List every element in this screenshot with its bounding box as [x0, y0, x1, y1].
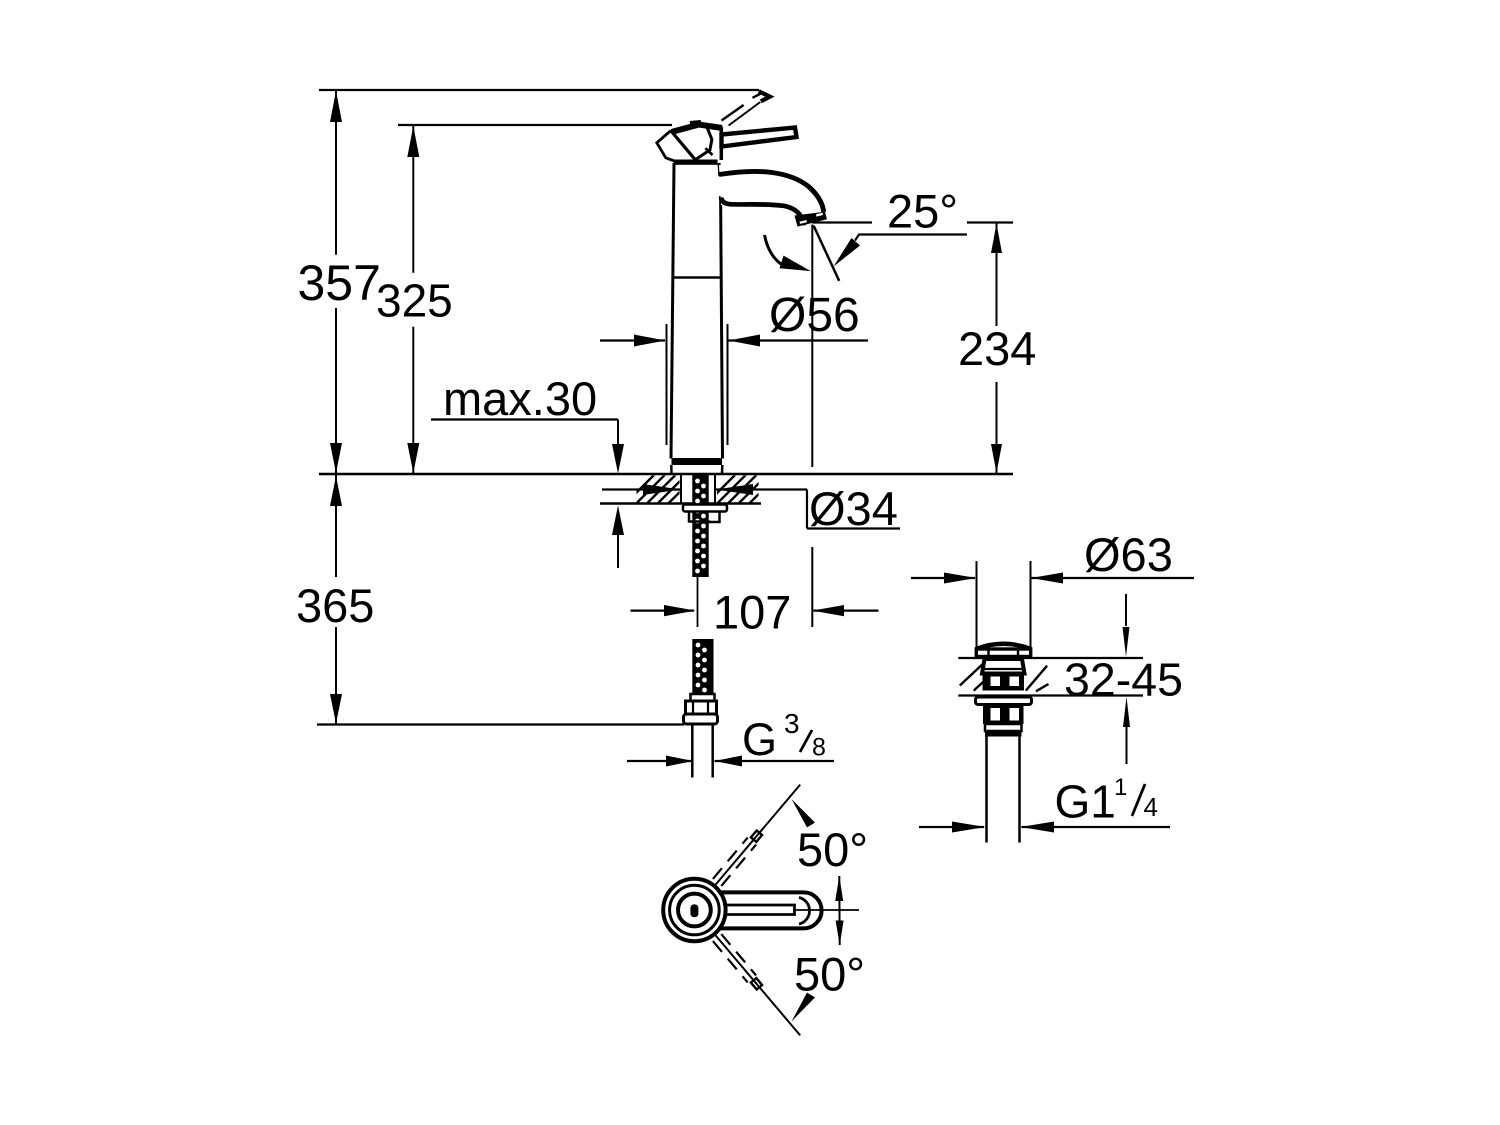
countertop deck line [319, 473, 1013, 476]
drain deck top line [958, 657, 1143, 659]
dimension 357 top arrow [330, 91, 342, 122]
top view centerline [795, 909, 860, 911]
svg-text:325: 325 [376, 275, 453, 327]
svg-text:3: 3 [784, 708, 800, 739]
dimension 107 line right [814, 609, 879, 611]
drain collar [985, 724, 1022, 731]
handle cap short dash [705, 148, 712, 155]
dimension 325 vertical line [412, 125, 414, 273]
deck hatch right band [707, 475, 778, 503]
dimension 325 bottom arrow [407, 443, 419, 473]
bottom reference line (365 level) [317, 723, 684, 725]
mounting nut [689, 512, 720, 523]
faucet body left edge [671, 163, 674, 459]
handle cap left flap [657, 131, 678, 163]
drain flange under deck [976, 697, 1032, 705]
O34 underline [807, 527, 900, 529]
top view mid circle [670, 885, 720, 935]
top view outer bar outline [700, 892, 822, 928]
svg-text:8: 8 [812, 734, 826, 762]
threaded shank below deck [692, 475, 708, 577]
svg-text:max.30: max.30 [443, 372, 597, 425]
upper 50deg arrowhead [792, 799, 816, 827]
handle cap inner face edges [694, 128, 712, 161]
drain cap rim [976, 649, 1030, 657]
hose end flange [684, 714, 718, 724]
G1 1/4 dim line [919, 826, 984, 828]
deck hole boundary lines [680, 475, 682, 503]
svg-text:234: 234 [958, 322, 1036, 375]
angular dim double arrow [838, 876, 840, 945]
G3/8 dim line left [627, 760, 692, 762]
dimension 325 top arrow [407, 126, 419, 157]
dimension 357 vertical line [335, 90, 337, 255]
upper 50deg boundary line [714, 785, 800, 887]
handle cap right edge [720, 127, 724, 160]
faucet body mid seam [673, 276, 722, 279]
spout white fill [719, 165, 822, 222]
deck bottom line [600, 502, 761, 505]
drain deck bottom line [958, 694, 1143, 696]
handle cap base bar [674, 160, 718, 165]
svg-text:Ø34: Ø34 [809, 482, 898, 535]
flexible hose braided band [692, 639, 713, 694]
hose collar [691, 694, 715, 701]
dimension 107 line left [631, 609, 695, 611]
top view inner end arc [799, 898, 810, 925]
svg-text:50°: 50° [797, 823, 868, 876]
drain black band [985, 731, 1022, 737]
max.30 arrow down to deck [612, 444, 624, 474]
25 deg leader line [855, 235, 967, 241]
svg-text:107: 107 [713, 586, 791, 639]
mounting washer [683, 505, 727, 512]
faucet base ring [672, 458, 723, 465]
25 deg leader arrow [834, 238, 861, 267]
spout bottom edge [721, 198, 804, 226]
max.30 arrow up to deck underside [612, 506, 624, 536]
raised lever (dashed, above) edge lower [729, 102, 761, 126]
upper 50deg dashed lever edges [713, 838, 748, 879]
drain cap dome [976, 644, 1031, 649]
faucet body right edge upper [718, 163, 722, 176]
25 deg vertical thin line from spout tip [811, 225, 813, 468]
lower 50deg dashed lever edges [713, 941, 748, 982]
svg-text:25°: 25° [887, 185, 958, 238]
supply pipe [691, 724, 694, 778]
rotation arc [765, 235, 784, 266]
lower 50deg lever end cap [751, 978, 762, 989]
drain slotted nut [983, 705, 1024, 725]
top view outer circle [663, 879, 725, 941]
25 deg reference line right segment [967, 221, 1013, 223]
svg-text:Ø56: Ø56 [769, 289, 860, 342]
top view inner circle [678, 894, 711, 927]
svg-text:G: G [742, 714, 777, 765]
max.30 leader underline [431, 418, 618, 420]
hose nut [686, 701, 717, 714]
drain tailpipe [985, 737, 988, 843]
deck hatch left band [626, 475, 697, 503]
O34 leader vertical [806, 490, 808, 529]
dimension 365 vertical line [335, 475, 337, 577]
spout top edge [719, 171, 824, 211]
spout aerator band [795, 212, 828, 227]
lower 50deg arrowhead [792, 993, 816, 1022]
dimension 357 bottom arrow [330, 443, 342, 473]
solid lever handle [722, 128, 797, 147]
top reference line (357 level) [319, 89, 759, 91]
drain neck [982, 659, 1025, 674]
faucet body right edge lower [721, 196, 723, 459]
svg-text:357: 357 [298, 255, 381, 311]
32-45 lower arrow [1123, 697, 1130, 727]
O56 dim line right [729, 339, 869, 341]
O56 dim line left [600, 339, 665, 341]
O34 leader line [602, 488, 680, 490]
O56 extension line left [666, 324, 668, 445]
top view inner bar rect [700, 905, 795, 915]
drain slot block [983, 674, 1025, 691]
svg-text:50°: 50° [794, 948, 865, 1001]
svg-text:32-45: 32-45 [1064, 654, 1183, 706]
32-45 upper arrow [1125, 594, 1127, 626]
raised lever center dashes [722, 101, 751, 121]
lower 50deg boundary line [714, 934, 800, 1036]
O56 extension line right [727, 324, 729, 445]
rotation arc arrowhead [780, 256, 811, 272]
25 deg slanted line [814, 226, 840, 281]
drain deck hatches [960, 664, 983, 685]
svg-text:365: 365 [296, 579, 374, 632]
svg-text:4: 4 [1144, 792, 1158, 822]
O63 extension lines [976, 561, 978, 652]
svg-text:Ø63: Ø63 [1084, 528, 1173, 581]
second reference line (325 level) [398, 124, 672, 126]
raised lever bold end cap [759, 91, 770, 101]
max.30 vertical above deck [617, 420, 619, 448]
dimension 365 top arrow [330, 476, 342, 506]
handle cap black top band [672, 125, 723, 133]
faucet base sides to deck [670, 465, 673, 474]
O63 dim line [911, 577, 975, 579]
svg-text:1: 1 [1114, 774, 1127, 801]
supply centerline [697, 577, 699, 627]
G3/8 dim line right [715, 760, 835, 762]
dimension 234 vertical [996, 223, 998, 326]
handle cap inner diagonal [671, 131, 696, 161]
dimension 365 bottom arrow [330, 694, 342, 724]
top view keyhole [690, 904, 698, 917]
svg-text:G1: G1 [1055, 776, 1116, 828]
upper 50deg lever end cap [751, 831, 762, 842]
raised lever upper edge dash [753, 93, 762, 98]
max.30 tail below deck [617, 534, 619, 568]
25 deg reference line left segment [812, 221, 872, 223]
